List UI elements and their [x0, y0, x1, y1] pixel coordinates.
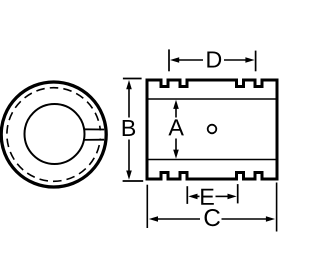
dimension D: left arrow — [178, 59, 203, 61]
dimension B: top tick — [123, 78, 142, 80]
dimension B: label — [123, 120, 135, 136]
side view: body outline with groove notches — [147, 80, 277, 179]
dimension A: lower arrow line — [175, 139, 177, 151]
dimension C: label — [205, 209, 220, 226]
dimension A: label — [168, 119, 183, 135]
dimension E: label — [201, 189, 214, 205]
front view: slot lower line — [83, 139, 104, 141]
dimension D: left tick — [168, 49, 170, 71]
dimension D: right tick — [255, 51, 257, 72]
dimension C: left arrow — [157, 218, 201, 220]
side view: lower groove-depth line — [149, 159, 276, 161]
front view: slot white gap — [84, 130, 105, 138]
dimension E: left arrow — [196, 195, 200, 197]
front view: dashed circle (groove diameter, hidden line) — [7, 88, 101, 182]
dimension E: left tick — [186, 186, 188, 204]
front view: outer circle (OD) — [1, 82, 106, 187]
dimension D: right arrow — [224, 59, 247, 61]
dimension C: left extension line — [146, 185, 148, 228]
dimension B: upper arrow line — [128, 88, 130, 118]
dimension D: label — [207, 51, 221, 67]
dimension A: upper arrow line — [175, 108, 177, 118]
side view: upper groove-depth line — [149, 98, 276, 100]
dimension C: right arrow — [222, 218, 268, 220]
dimension E: right tick — [237, 184, 239, 203]
dimension B: bottom tick — [123, 180, 144, 182]
dimension E: right arrow — [216, 195, 229, 197]
dimension C: right extension line — [276, 183, 278, 232]
side view: oil hole — [208, 125, 217, 134]
front view: inner circle (bore) — [25, 104, 85, 164]
dimension B: lower arrow line — [128, 140, 130, 172]
front view: slot upper line — [83, 128, 104, 130]
